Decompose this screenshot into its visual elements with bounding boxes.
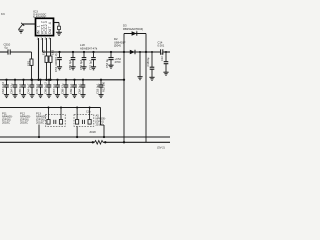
wire top branch y=33.5 [124,33,146,35]
wire bottom rail 1 y=137 [0,136,170,138]
junction on bus x=32 [31,79,33,81]
capacitor C66 [46,80,51,98]
junction on bus x=6.5 [5,79,7,81]
ferrite bead EP3 [49,56,52,62]
svg-text:[D04]: [D04] [114,44,121,48]
junction pin1 wire on bus [37,79,39,81]
capacitor C45 [38,80,43,98]
wire lead into CN2 right [89,108,91,120]
svg-text:C1B 0µ: C1B 0µ [146,57,150,66]
junction on bus x=15 [14,79,16,81]
svg-text:2018C: 2018C [36,121,44,125]
junction P13 lead on bottom line [38,136,40,138]
capacitor C510 series plates [8,49,10,54]
capacitor C54 [57,52,62,70]
wire pin2 down to rail corner [42,38,44,52]
junction rail-branch left [123,51,125,53]
wire long vertical x=146 [145,52,147,142]
svg-text:C65 0µ1: C65 0µ1 [18,83,22,94]
capacitor C67 [55,80,60,98]
junction on rail x=111 [110,51,112,53]
wire pin1 down to bus [38,38,40,80]
wire corner right [101,124,105,126]
svg-text:C69 0µ1: C69 0µ1 [69,83,73,94]
connector element CN2 right [88,120,91,125]
wire branch right vertical x=146 [145,34,147,53]
svg-text:C67 0µ1: C67 0µ1 [52,83,56,94]
IC3 pin numbers 1 2 3 4 [37,36,51,40]
label C510 value [4,43,11,50]
capacitor C65 [21,80,26,98]
junction pin4 wire on bus [49,79,51,81]
svg-text:0µ: 0µ [5,46,9,50]
capacitor C68 [63,80,68,98]
junction x=152 [151,51,153,53]
wire pin4 upper segment [50,38,52,56]
junction CN2 right on line [89,107,91,109]
svg-text:2018C: 2018C [20,121,28,125]
wire pin3 lower segment [46,62,48,79]
junction vertical124 bottom [123,141,125,143]
svg-text:C68 47µ: C68 47µ [61,83,65,94]
wire IC3 right pin [54,23,60,27]
svg-text:EP1: EP1 [26,60,30,66]
svg-text:Z018: Z018 [90,130,97,134]
wire branch left vertical x=124 [123,34,125,53]
svg-text:C66 0µ22: C66 0µ22 [44,82,48,94]
wire long vertical x=124 [123,52,125,142]
wire left edge to C510 [0,51,8,53]
svg-text:L18: L18 [80,43,85,47]
wire lead into CN1 left [48,108,50,120]
junction EP1 wire on bus [30,79,32,81]
wire corner x=100.5 down [100,108,102,126]
capacitor C52 4700/16V [108,52,113,68]
wire line y107 [0,107,101,109]
svg-text:2018C: 2018C [96,122,104,126]
wire main rail y52 [43,51,171,53]
diode D3 [132,31,137,36]
svg-text:C53 0µ: C53 0µ [105,59,109,68]
wire bus y80 [0,79,124,81]
capacitor C1B [98,80,103,98]
junction on bus x=49 [48,79,50,81]
label +C52 4700 (16V) [115,57,122,64]
label D3 RB15AA07[D04] [123,24,143,31]
wire x=104 down to bottom line [103,125,105,137]
diode D2 [130,50,135,55]
connector element CN2 left [76,120,79,125]
junction on rail x=84 [83,51,85,53]
svg-text:K3: K3 [1,12,5,16]
connector center bars CN1 [54,120,56,124]
capacitor C55 [70,52,75,70]
dashed box CN2 [74,115,94,127]
junction on bus x=101 [100,79,102,81]
wire pin4 lower segment [50,62,52,79]
svg-text:[5V-2]: [5V-2] [158,146,165,150]
junction CN2 left on line [76,107,78,109]
svg-text:C44 4µ7: C44 4µ7 [27,83,31,94]
svg-text:A5/AE547-47k: A5/AE547-47k [80,47,98,51]
ferrite bead EP1 [30,59,33,65]
junction on bus x=57.5 [56,79,58,81]
capacitor C1C at x=166 [163,52,168,75]
wire P13 lead down to bottom line [38,125,40,138]
capacitor C57 [91,52,96,70]
junction on rail x=73 [72,51,74,53]
label A5 column right of CN2 [96,113,106,126]
capacitor C6A [80,80,85,98]
svg-text:R12 100: R12 100 [102,81,106,92]
op-amp U1 regulator IC3 body [36,18,54,35]
svg-text:C1B 0µ1: C1B 0µ1 [96,83,100,94]
svg-text:C55 0µ1: C55 0µ1 [68,59,72,70]
junction on bus x=23.5 [22,79,24,81]
capacitor C14 series plates [161,49,163,54]
junction on bus x=74.5 [73,79,75,81]
label C14 0.001 [158,40,165,47]
junction on bus x=83 [82,79,84,81]
svg-text:C6A 0µ1: C6A 0µ1 [78,83,82,94]
svg-text:C64 47µ: C64 47µ [10,83,14,94]
connector element CN1 left [47,120,50,125]
svg-text:2018C: 2018C [2,121,10,125]
junction CN1 right on line [60,107,62,109]
label IC3 refdes and part number [33,9,46,19]
junction x=140 [139,51,141,53]
label P12 NPA605- [OP16] 2018C [20,112,31,125]
svg-text:C1b: C1b [86,110,91,114]
junction on rail x=93.5 [92,51,94,53]
svg-text:C1C 0µ: C1C 0µ [160,51,164,61]
input arrow symbol [19,23,25,30]
junction x104 on bottom line [103,136,105,138]
capacitor C44 [29,80,34,98]
junction rail-branch right [145,51,147,53]
label L18 A5/AE547-47k [80,43,98,50]
svg-text:0.001: 0.001 [158,44,165,48]
wire pin3 upper segment [46,38,48,56]
wire bottom rail 2 right [103,141,170,143]
label D2 UB6401F [D04] [114,37,126,47]
svg-text:4700: 4700 [115,60,121,64]
label P13 NPA605- [OP16] 2018C [36,112,47,125]
wire IC3 left pin to input symbol [23,23,36,25]
junction pin3 wire on bus [45,79,47,81]
wire bottom rail 2 left [0,141,95,143]
capacitor C64 [12,80,17,98]
ferrite bead EP2 [45,56,48,62]
svg-text:C57 0µ1: C57 0µ1 [88,59,92,70]
wire box to ground [58,30,60,32]
wire CN2 lead down to bottom line [76,126,78,137]
ground right of IC3 [56,32,62,35]
capacitor C63 [4,80,9,98]
wire EP1 down to bus [31,65,33,79]
capacitor C69 [72,80,77,98]
svg-text:C63 0µ33: C63 0µ33 [1,82,5,94]
junction CN1 left on line [48,107,50,109]
junction on bus x=40.5 [39,79,41,81]
junction x=166 [165,51,167,53]
label P11 NPA605- [OP16] 2018C [2,112,13,125]
capacitor small box right of IC3 [58,26,61,29]
junction right of resistor [104,141,106,143]
junction CN2 lead bottom [76,136,78,138]
ground left of IC3 [18,30,23,33]
junction on bus x=66 [65,79,67,81]
wire stub to ground x=140 [139,52,141,76]
svg-text:C56 0µ1: C56 0µ1 [79,59,83,70]
connector center bars CN2 [82,120,84,124]
svg-text:C45 0µ1: C45 0µ1 [35,83,39,94]
connector element CN1 right [59,120,62,125]
ground x=140 [137,77,142,80]
svg-text:RB15AA07[D04]: RB15AA07[D04] [123,27,143,31]
junction left of resistor [92,141,94,143]
wire lead into CN2 left [76,108,78,120]
svg-text:C54 3300(6.3): C54 3300(6.3) [54,53,58,72]
dashed box CN1 [45,115,65,127]
capacitor C56 [81,52,86,70]
wire corner down to EP1 [31,52,33,59]
resistor R19 in bottom rail [95,141,104,145]
junction bus-vertical x124 [123,79,125,81]
wire C510 to corner [10,51,31,53]
capacitor C1B at x=152 [149,52,154,80]
junction on rail x=59.5 [58,51,60,53]
svg-text:OUT 4: OUT 4 [48,22,52,34]
wire lead into CN1 right [60,108,62,120]
